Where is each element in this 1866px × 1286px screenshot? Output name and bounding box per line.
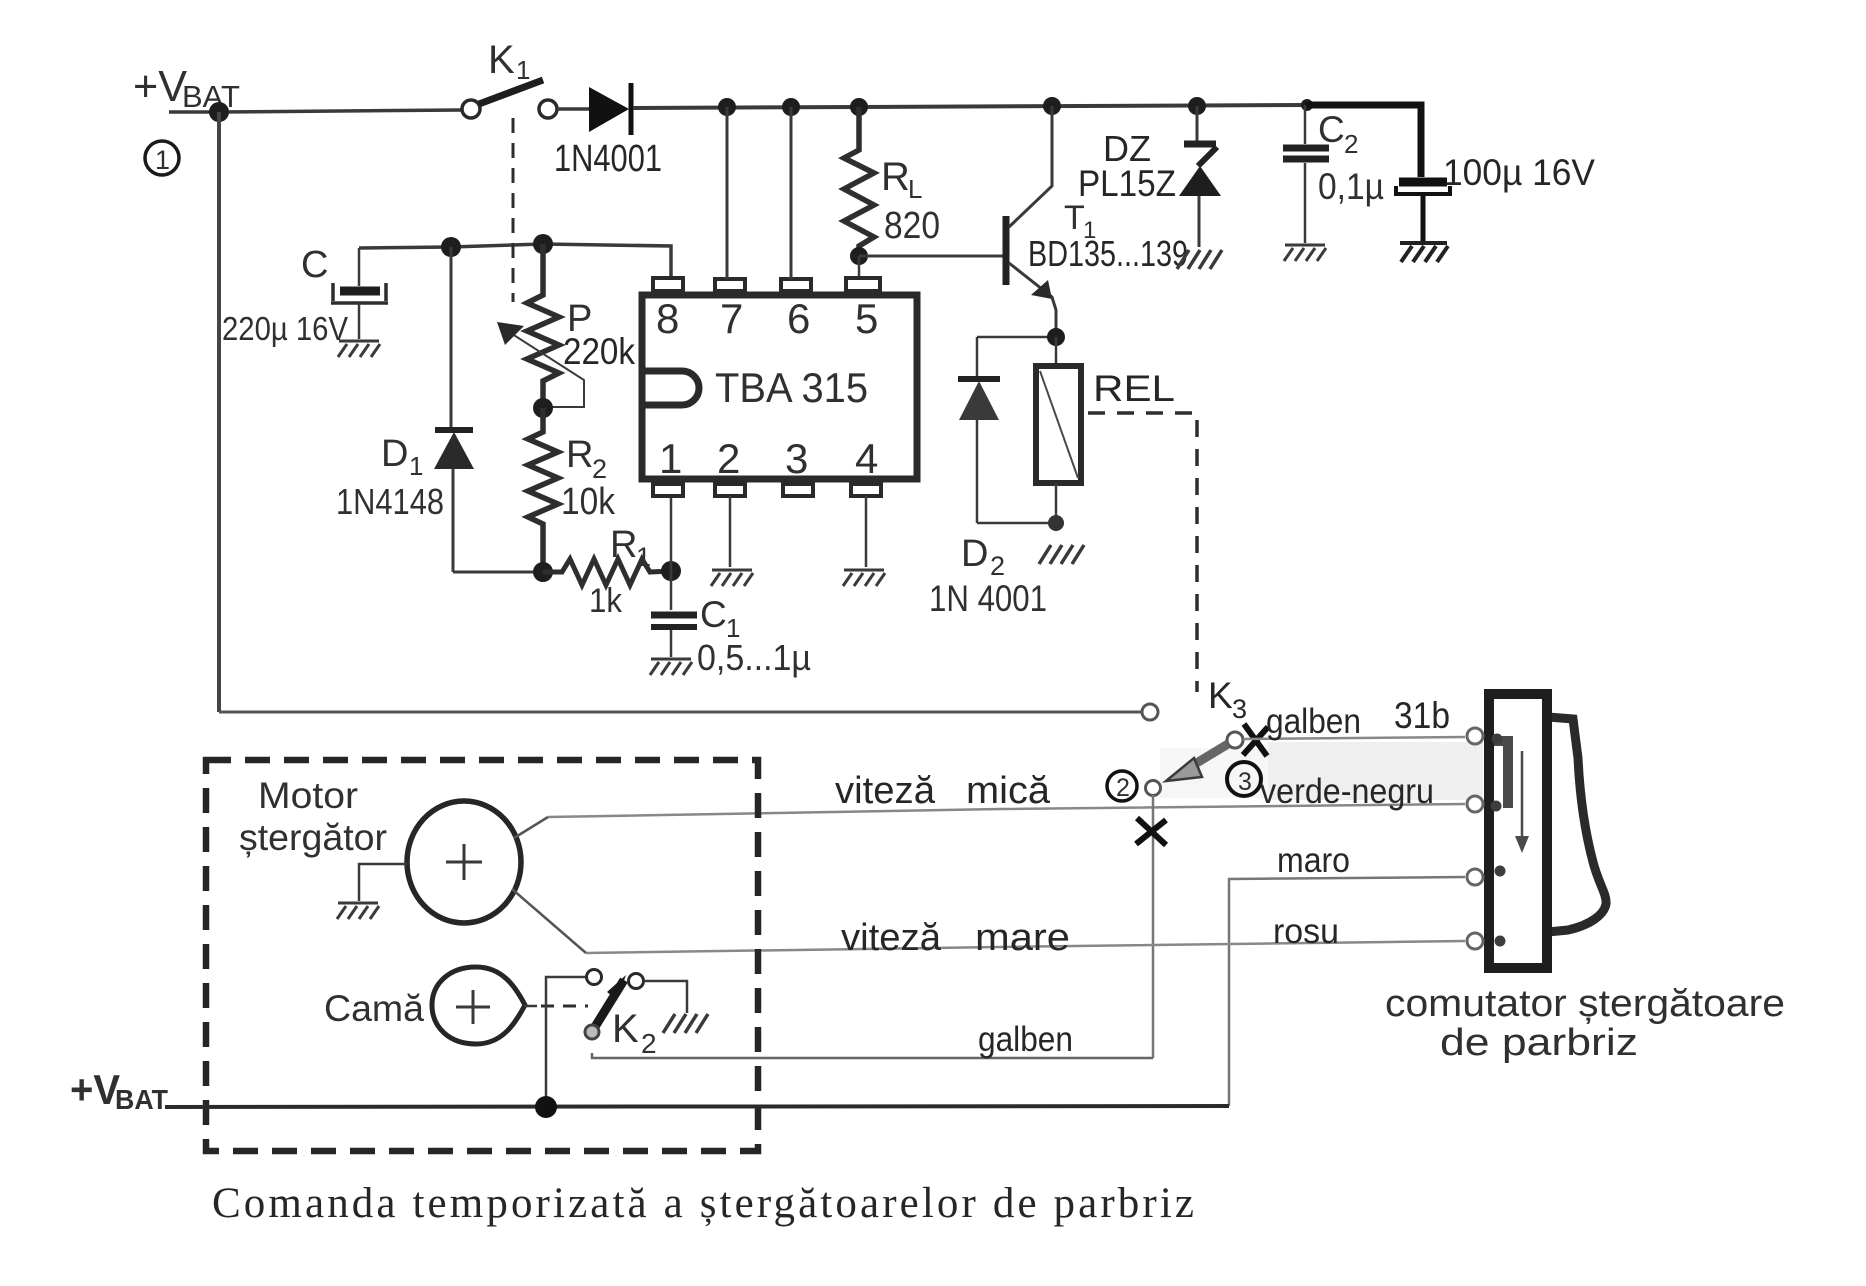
svg-text:L: L bbox=[908, 174, 922, 204]
wire viteza mica row bbox=[548, 804, 1465, 817]
cam lobe bbox=[432, 967, 525, 1044]
X mark on galben wire bbox=[1243, 724, 1268, 756]
capacitor C1 bbox=[651, 571, 697, 657]
svg-text:3: 3 bbox=[1232, 694, 1247, 724]
wire pin2 to ground bbox=[729, 496, 732, 567]
svg-text:viteză: viteză bbox=[835, 770, 936, 812]
wire K2 left contact to VBAT rail bbox=[546, 977, 588, 1106]
junction K2 rail bbox=[535, 1096, 557, 1118]
contact dot verde-negru bbox=[1491, 801, 1502, 812]
ground DZ bbox=[1177, 250, 1222, 269]
wire top rail left of K1 bbox=[169, 110, 462, 112]
junction P top bbox=[533, 234, 553, 254]
svg-text:galben: galben bbox=[978, 1020, 1073, 1059]
svg-text:K: K bbox=[488, 38, 515, 82]
svg-text:de parbriz: de parbriz bbox=[1440, 1022, 1638, 1064]
pin 2 box bbox=[715, 484, 745, 496]
junction T1 emitter REL bbox=[1047, 328, 1065, 346]
wire D2 bottom to REL bottom bbox=[977, 522, 1056, 525]
svg-text:1N4148: 1N4148 bbox=[336, 481, 444, 522]
wire node1 to K3 common bbox=[219, 711, 1142, 714]
terminal rosu bbox=[1467, 933, 1483, 949]
svg-text:3: 3 bbox=[785, 435, 808, 482]
node +VBAT top label bbox=[133, 62, 240, 114]
svg-text:0,1µ: 0,1µ bbox=[1318, 166, 1384, 207]
junction DZ rail bbox=[1188, 97, 1206, 115]
wire emitter junction to D2 bbox=[977, 336, 1056, 339]
svg-text:3: 3 bbox=[1238, 768, 1252, 796]
wire motor upper lead bbox=[514, 817, 548, 838]
svg-text:0,5...1µ: 0,5...1µ bbox=[697, 637, 811, 678]
svg-text:31b: 31b bbox=[1394, 695, 1450, 736]
wire maro row bbox=[1229, 877, 1465, 1106]
junction top-left bbox=[209, 102, 229, 122]
pin 7 box bbox=[715, 279, 745, 291]
wire galben vertical riser bbox=[1152, 795, 1155, 1058]
wire motor lower lead bbox=[512, 889, 586, 953]
capacitor 100u electrolytic bbox=[1396, 182, 1450, 241]
wire pin1 to R1 bbox=[670, 496, 673, 571]
comutator switch body bbox=[1489, 694, 1606, 968]
wire RL to pin5 bbox=[858, 256, 861, 279]
svg-text:verde-negru: verde-negru bbox=[1260, 772, 1434, 811]
svg-text:5: 5 bbox=[855, 295, 878, 342]
wire K2 right contact to ground bbox=[644, 981, 687, 1013]
dashed link cam to K2 bbox=[541, 1005, 588, 1008]
svg-text:2: 2 bbox=[990, 551, 1005, 581]
ground K2 bbox=[663, 1014, 708, 1033]
terminal K3 common bbox=[1142, 704, 1158, 720]
svg-text:K: K bbox=[1208, 675, 1233, 716]
terminal maro bbox=[1467, 869, 1483, 885]
junction R2 bottom bbox=[533, 562, 553, 582]
X mark on riser bbox=[1136, 818, 1166, 845]
svg-text:2: 2 bbox=[717, 435, 740, 482]
wire top rail main bbox=[633, 105, 1307, 108]
svg-text:PL15Z: PL15Z bbox=[1078, 163, 1176, 204]
svg-text:1: 1 bbox=[516, 55, 530, 85]
diode D1 bbox=[434, 247, 474, 572]
svg-text:1: 1 bbox=[636, 542, 651, 572]
comutator arrow bbox=[1515, 751, 1529, 853]
junction T1 collector rail bbox=[1043, 97, 1061, 115]
scan shading bbox=[1268, 742, 1483, 800]
svg-text:Comanda temporizată a ștergăto: Comanda temporizată a ștergătoarelor de … bbox=[212, 1180, 1194, 1227]
switch K1 bbox=[462, 80, 557, 118]
svg-text:galben: galben bbox=[1266, 702, 1361, 741]
svg-text:Motor: Motor bbox=[258, 775, 358, 816]
resistor RL bbox=[844, 107, 874, 256]
wire left vertical (node 1 rail) bbox=[217, 112, 221, 712]
svg-text:R: R bbox=[610, 524, 637, 566]
node 1 marker bbox=[145, 141, 179, 175]
svg-text:TBA 315: TBA 315 bbox=[715, 364, 868, 411]
relay REL coil bbox=[1036, 337, 1081, 521]
wire K1 to diode bbox=[557, 107, 590, 111]
diode D2 bbox=[958, 337, 1000, 523]
motor M circle bbox=[407, 801, 521, 923]
svg-text:220µ 16V: 220µ 16V bbox=[222, 310, 348, 347]
ground pin4 bbox=[843, 570, 885, 586]
contact dot maro bbox=[1495, 866, 1506, 877]
svg-text:T: T bbox=[1064, 199, 1085, 237]
wire C row to pin8 bbox=[359, 244, 671, 278]
terminal K3 NC contact bbox=[1146, 781, 1161, 796]
junction P wiper R2 bbox=[533, 398, 553, 418]
pin 8 box bbox=[653, 278, 683, 291]
ground C1 bbox=[650, 659, 692, 675]
svg-text:820: 820 bbox=[884, 205, 940, 247]
pin 5 box bbox=[846, 278, 880, 291]
svg-text:C: C bbox=[700, 594, 727, 635]
svg-text:1: 1 bbox=[155, 145, 170, 175]
svg-text:4: 4 bbox=[855, 435, 878, 482]
svg-text:1: 1 bbox=[659, 435, 682, 482]
svg-text:C: C bbox=[1318, 109, 1345, 150]
svg-text:1N 4001: 1N 4001 bbox=[929, 578, 1047, 619]
junction D1 top bbox=[441, 237, 461, 257]
resistor R1 bbox=[543, 559, 671, 585]
ground C bbox=[338, 341, 380, 357]
dashed box motor assembly bbox=[206, 760, 758, 1151]
svg-text:BAT: BAT bbox=[115, 1084, 168, 1115]
zener DZ bbox=[1179, 106, 1221, 247]
wire cam tip stub bbox=[524, 1005, 537, 1008]
wire +VBAT bottom rail bbox=[165, 1106, 1229, 1107]
pin 4 box bbox=[851, 484, 881, 496]
wire pin6 from rail bbox=[790, 107, 793, 279]
op-amp U1 TBA315 body bbox=[642, 295, 917, 479]
transistor T1 bbox=[1006, 106, 1056, 337]
svg-text:R: R bbox=[881, 155, 910, 199]
svg-text:2: 2 bbox=[641, 1028, 657, 1059]
svg-text:8: 8 bbox=[656, 295, 679, 342]
wire galben K3 to comutator bbox=[1243, 737, 1465, 739]
ground motor bbox=[337, 903, 379, 919]
ground C2 bbox=[1284, 245, 1326, 261]
dashed link K1 to P bbox=[512, 118, 515, 302]
wire base T1 bbox=[859, 255, 1003, 258]
junction pin7 rail bbox=[718, 98, 736, 116]
contact dot rosu bbox=[1495, 936, 1506, 947]
svg-text:1N4001: 1N4001 bbox=[554, 138, 662, 180]
terminal 31b bbox=[1467, 728, 1483, 744]
dashed link REL to K3 bbox=[1088, 413, 1197, 692]
svg-text:rosu: rosu bbox=[1273, 912, 1339, 951]
svg-text:1: 1 bbox=[409, 451, 423, 481]
terminal verde-negru bbox=[1467, 796, 1483, 812]
junction R1 right / pin1 / C1 bbox=[661, 561, 681, 581]
wire pin4 to ground bbox=[865, 496, 868, 567]
junction RL bottom bbox=[850, 247, 868, 265]
junction RL rail bbox=[850, 98, 868, 116]
wire motor ground stub bbox=[359, 864, 407, 901]
pin 6 box bbox=[781, 279, 811, 291]
svg-text:REL: REL bbox=[1093, 368, 1175, 409]
capacitor C 220u bbox=[331, 248, 388, 339]
svg-text:2: 2 bbox=[592, 454, 607, 484]
svg-text:7: 7 bbox=[720, 295, 743, 342]
ground 100u bbox=[1400, 243, 1448, 262]
svg-text:100µ 16V: 100µ 16V bbox=[1443, 152, 1595, 193]
junction pin6 rail bbox=[782, 98, 800, 116]
node 3 marker bbox=[1227, 762, 1261, 796]
svg-text:220k: 220k bbox=[563, 331, 635, 372]
wire D1 bottom row bbox=[453, 571, 543, 574]
svg-text:mică: mică bbox=[966, 770, 1051, 812]
node 2 marker bbox=[1107, 771, 1137, 801]
capacitor C2 bbox=[1283, 105, 1329, 243]
svg-text:1k: 1k bbox=[589, 582, 623, 620]
svg-text:+V: +V bbox=[133, 62, 188, 111]
svg-text:+V: +V bbox=[70, 1066, 120, 1113]
svg-text:D: D bbox=[961, 533, 988, 575]
ground pin2 bbox=[711, 570, 753, 586]
svg-text:2: 2 bbox=[1344, 129, 1358, 159]
svg-text:mare: mare bbox=[975, 917, 1070, 959]
wire viteza mare row bbox=[586, 941, 1465, 953]
svg-text:maro: maro bbox=[1277, 841, 1350, 880]
ground REL bbox=[1039, 545, 1084, 564]
comutator slider mark bbox=[1494, 736, 1513, 808]
diode 1N4001 top bbox=[589, 83, 631, 135]
svg-text:Camă: Camă bbox=[324, 988, 424, 1029]
switch K3 lever bbox=[1166, 732, 1243, 781]
svg-text:6: 6 bbox=[787, 295, 810, 342]
pin 3 box bbox=[783, 484, 813, 496]
resistor R2 bbox=[528, 408, 558, 572]
pin 1 box bbox=[653, 484, 683, 496]
svg-text:BD135...139: BD135...139 bbox=[1028, 233, 1188, 274]
svg-text:K: K bbox=[612, 1007, 639, 1051]
wire galben bottom row bbox=[592, 1053, 1153, 1058]
wire thick rail to 100u bbox=[1305, 105, 1421, 177]
svg-text:viteză: viteză bbox=[841, 917, 942, 959]
svg-text:ștergător: ștergător bbox=[239, 817, 387, 858]
svg-text:R: R bbox=[566, 434, 593, 476]
svg-text:D: D bbox=[381, 433, 408, 475]
svg-text:comutator ștergătoare: comutator ștergătoare bbox=[1385, 983, 1785, 1025]
svg-text:2: 2 bbox=[1116, 774, 1130, 802]
svg-text:C: C bbox=[301, 244, 328, 286]
contact dot 31b bbox=[1492, 734, 1503, 745]
wire pin7 from rail bbox=[726, 107, 729, 279]
junction REL bottom bbox=[1048, 515, 1064, 531]
label +VBAT bottom bbox=[70, 1066, 168, 1115]
svg-text:10k: 10k bbox=[561, 481, 616, 523]
junction C2 rail bbox=[1301, 99, 1313, 111]
switch K2 bbox=[585, 970, 644, 1040]
potentiometer P bbox=[497, 244, 584, 408]
